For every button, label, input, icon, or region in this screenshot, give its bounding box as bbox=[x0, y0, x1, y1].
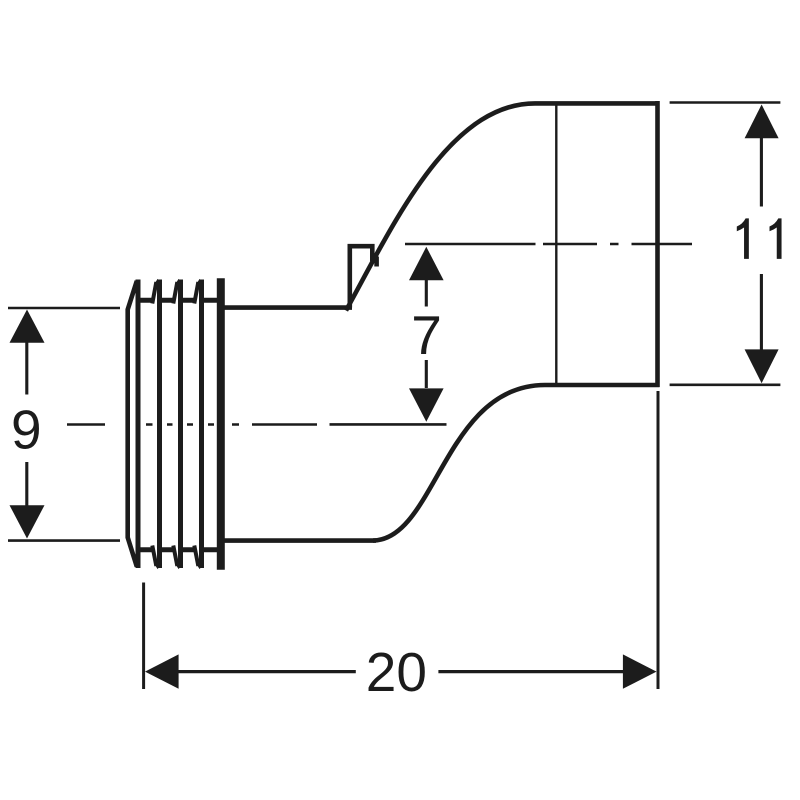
svg-text:20: 20 bbox=[366, 641, 427, 703]
svg-text:9: 9 bbox=[11, 399, 42, 461]
svg-text:7: 7 bbox=[411, 304, 442, 366]
